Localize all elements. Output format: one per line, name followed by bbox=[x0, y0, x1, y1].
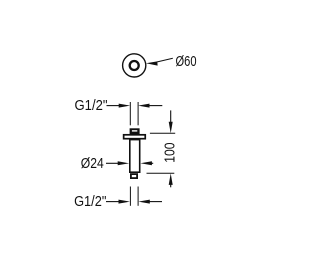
collar cap highlight bbox=[132, 130, 137, 131]
top G1/2 left dim line bbox=[107, 105, 122, 107]
pipe threaded tip bbox=[131, 174, 137, 178]
leader arrowhead at circle bbox=[146, 61, 158, 65]
100 dim top extension line bbox=[150, 132, 175, 134]
100 dim top arrowhead bbox=[169, 122, 173, 134]
top G1/2 left arrowhead bbox=[119, 104, 131, 108]
svg-text:G1/2": G1/2" bbox=[75, 97, 108, 114]
top thread stub right wall bbox=[137, 102, 139, 125]
100 dim bottom arrowhead bbox=[169, 173, 173, 185]
top G1/2 right arrowhead bbox=[138, 104, 150, 108]
escutcheon top view outer circle bbox=[123, 54, 146, 77]
100 dim bottom arrow line bbox=[170, 183, 172, 187]
bottom G1/2 left arrowhead bbox=[119, 200, 131, 204]
leader line to Ø60 label bbox=[157, 58, 173, 62]
100 dim bottom extension line bbox=[147, 172, 175, 174]
bottom G1/2 left dim line bbox=[106, 201, 121, 203]
bottom G1/2 right dim line bbox=[149, 201, 162, 203]
bottom thread stub right wall bbox=[137, 187, 139, 206]
pipe body bbox=[130, 140, 140, 173]
Ø24 left arrowhead bbox=[118, 161, 130, 165]
svg-text:Ø60: Ø60 bbox=[176, 53, 197, 70]
flange plate bbox=[124, 135, 146, 139]
100 dim top arrow line bbox=[170, 110, 172, 124]
svg-text:G1/2": G1/2" bbox=[74, 193, 106, 210]
bottom thread stub left wall bbox=[129, 187, 131, 206]
Ø24 right dim line bbox=[150, 162, 153, 164]
Ø24 right arrowhead bbox=[140, 161, 152, 165]
escutcheon top view inner ring bbox=[130, 61, 139, 70]
bottom G1/2 right arrowhead bbox=[138, 200, 150, 204]
collar cap above flange bbox=[130, 128, 140, 134]
Ø24 left dim line bbox=[106, 162, 119, 164]
top thread stub left wall bbox=[129, 102, 131, 125]
top G1/2 right dim line bbox=[148, 105, 162, 107]
svg-text:100: 100 bbox=[162, 142, 179, 162]
svg-text:Ø24: Ø24 bbox=[81, 155, 104, 172]
